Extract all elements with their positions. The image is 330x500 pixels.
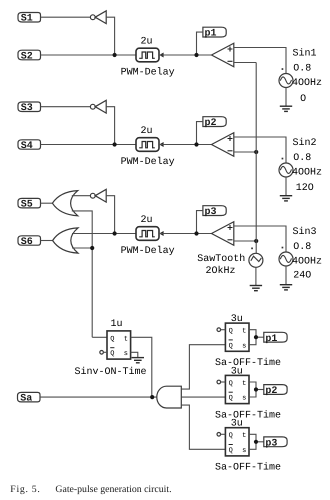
svg-text:SawTooth: SawTooth <box>197 253 245 265</box>
svg-text:Q: Q <box>110 335 114 343</box>
svg-text:O: O <box>300 94 306 105</box>
svg-text:Q: Q <box>229 380 233 388</box>
labels Sin1 0.8 400Hz 0 <box>292 48 322 105</box>
PWM-Delay block channel 1 <box>136 48 164 62</box>
wire OR top input from inverter <box>72 195 91 197</box>
svg-text:t: t <box>242 380 246 388</box>
monostable Sa-OFF-Time 2 <box>225 375 249 403</box>
wire Sinv-ON-Time to ground <box>131 352 138 357</box>
labels Sin3 0.8 400Hz 240 <box>292 226 322 281</box>
inverter (S4 to S3) <box>90 100 106 113</box>
wire inverter input from junction <box>106 107 114 145</box>
tag S6 <box>18 236 41 248</box>
tag Sa <box>18 392 41 404</box>
tag S5 <box>18 198 41 210</box>
junction p2 trigger <box>254 387 258 391</box>
tag p3 (bottom) <box>264 437 287 450</box>
svg-text:Sin1: Sin1 <box>293 48 317 60</box>
svg-text:4OOHz: 4OOHz <box>292 168 322 179</box>
bubble pin (Sa-OFF-Time 1) <box>217 328 225 332</box>
tag S4 <box>18 140 41 152</box>
svg-text:S6: S6 <box>21 237 33 248</box>
AND gate (3-input, pointing left) <box>157 386 182 408</box>
svg-text:p3: p3 <box>265 438 277 449</box>
comparator U3 <box>212 222 234 246</box>
svg-text:Q: Q <box>229 395 233 403</box>
svg-text:Q: Q <box>110 350 114 358</box>
svg-text:s: s <box>242 395 246 403</box>
sawtooth source SawTooth <box>249 248 263 268</box>
labels Sin2 0.8 400Hz 120 <box>292 137 322 194</box>
sine source Sin1 <box>279 68 293 87</box>
wire + input from sine <box>234 137 286 163</box>
wire p3 tap <box>197 211 203 234</box>
svg-text:24O: 24O <box>293 271 311 282</box>
wire S4 line to PWM-Delay <box>41 144 137 146</box>
svg-text:1u: 1u <box>111 319 123 330</box>
junction node p1 <box>194 53 198 57</box>
wire S2 line to PWM-Delay <box>41 54 137 56</box>
monostable Sa-OFF-Time 3 <box>225 428 249 456</box>
svg-text:Sa-OFF-Time: Sa-OFF-Time <box>215 409 281 421</box>
wire p1 tap <box>197 32 203 55</box>
OR gate (S6) <box>53 228 78 253</box>
svg-text:O.8: O.8 <box>293 153 311 164</box>
svg-text:p2: p2 <box>265 386 277 397</box>
comparator U2 <box>212 133 234 157</box>
junction node p2 <box>194 142 198 146</box>
OR gate (S5) <box>52 191 77 216</box>
wire S5 to OR gate <box>41 202 53 204</box>
svg-text:Sa: Sa <box>20 394 32 405</box>
junction p3 trigger <box>254 440 258 444</box>
svg-text:Q: Q <box>229 447 233 455</box>
wire + input from sine <box>234 48 286 74</box>
wire to tag p1 <box>256 336 264 338</box>
wire trigger bracket (Sa-OFF-Time 3) <box>249 434 256 449</box>
svg-text:Sa-OFF-Time: Sa-OFF-Time <box>215 462 281 474</box>
svg-text:Q: Q <box>229 432 233 440</box>
svg-text:s: s <box>242 447 246 455</box>
svg-text:PWM-Delay: PWM-Delay <box>121 245 175 257</box>
svg-text:4OOHz: 4OOHz <box>292 257 322 268</box>
svg-text:Q: Q <box>229 342 233 350</box>
sine source Sin3 <box>279 247 293 266</box>
wire to tag p2 <box>256 389 264 391</box>
wire - input to sawtooth bus <box>234 62 256 64</box>
junction node channel 3 <box>113 231 117 235</box>
svg-text:Sinv-ON-Time: Sinv-ON-Time <box>75 366 147 378</box>
svg-text:2OkHz: 2OkHz <box>206 265 236 277</box>
tag p3 <box>203 206 226 219</box>
svg-text:2u: 2u <box>141 126 153 137</box>
svg-text:Fig. 5.: Fig. 5. <box>10 484 40 495</box>
ground (SawTooth) <box>250 286 262 291</box>
wire S6 to OR gate <box>41 240 53 242</box>
tag p2 <box>203 117 226 130</box>
wire OR bottom input from Sinv-ON-Time output <box>72 211 92 337</box>
svg-text:s: s <box>242 342 246 350</box>
svg-text:PWM-Delay: PWM-Delay <box>121 67 175 79</box>
tag S1 <box>18 13 41 25</box>
svg-text:Sin2: Sin2 <box>293 137 317 149</box>
bubble pin (Sa-OFF-Time 3) <box>217 433 225 437</box>
wire p2 tap <box>197 122 203 145</box>
svg-text:Gate-pulse generation circuit.: Gate-pulse generation circuit. <box>55 484 171 495</box>
svg-text:t: t <box>242 432 246 440</box>
wire to tag p3 <box>256 441 264 443</box>
svg-text:2u: 2u <box>141 215 153 226</box>
wire Sinv-ON-Time to Sa node <box>131 337 152 397</box>
wire Sa line to AND output <box>40 396 157 398</box>
wire S3 to inverter output <box>41 106 91 108</box>
svg-text:s: s <box>124 350 128 358</box>
svg-text:t: t <box>124 335 128 343</box>
wire AND input 2 from Sa-OFF-Time 2 <box>181 396 225 398</box>
bubble pin (Sinv-ON-Time Qbar) <box>100 351 107 355</box>
PWM-Delay block channel 2 <box>136 138 164 152</box>
ground (Sin3) <box>280 285 292 290</box>
svg-text:p1: p1 <box>205 29 217 40</box>
svg-text:t: t <box>242 328 246 336</box>
comparator U1 <box>212 43 234 67</box>
inverter (S2 to S1) <box>90 11 106 24</box>
junction Sinv feedback <box>90 246 94 250</box>
tag S3 <box>18 102 41 114</box>
junction Sa node <box>150 395 154 399</box>
sine source Sin2 <box>279 158 293 177</box>
junction node S2 <box>113 53 117 57</box>
junction sawtooth bus <box>254 150 258 154</box>
wire channel-3 main line to PWM-Delay <box>72 233 136 235</box>
wire into Sinv-ON-Time input <box>92 336 107 338</box>
caption Fig. 5 <box>10 484 171 495</box>
wire sawtooth bus <box>255 63 257 254</box>
labels SawTooth 20kHz <box>197 253 245 277</box>
ground (Sin2) <box>280 196 292 201</box>
svg-text:12O: 12O <box>296 183 314 194</box>
svg-text:Q: Q <box>229 328 233 336</box>
wire <box>285 177 287 196</box>
wire AND input 3 from Sa-OFF-Time 3 <box>181 405 225 449</box>
wire AND input 1 from Sa-OFF-Time 1 <box>181 345 225 389</box>
inverter (channel 3) <box>90 189 106 202</box>
svg-text:4OOHz: 4OOHz <box>292 78 322 89</box>
svg-text:Sa-OFF-Time: Sa-OFF-Time <box>215 357 281 369</box>
svg-text:p2: p2 <box>205 118 217 129</box>
tag p1 <box>203 27 226 40</box>
svg-text:S4: S4 <box>21 141 33 152</box>
tag p2 (bottom) <box>264 385 287 398</box>
svg-text:S3: S3 <box>21 103 33 114</box>
monostable Sinv-ON-Time <box>107 331 131 359</box>
tag S2 <box>18 50 41 62</box>
junction node p3 <box>194 231 198 235</box>
junction node S4 <box>113 142 117 146</box>
monostable Sa-OFF-Time 1 <box>225 323 249 351</box>
svg-text:PWM-Delay: PWM-Delay <box>121 156 175 168</box>
tag p1 (bottom) <box>264 332 287 345</box>
svg-text:O.8: O.8 <box>293 64 311 75</box>
wire - input to sawtooth bus <box>234 151 256 153</box>
wire <box>285 88 287 107</box>
junction p1 trigger <box>254 335 258 339</box>
wire - input to sawtooth bus <box>234 240 256 242</box>
wire inverter input from junction <box>106 17 114 55</box>
svg-text:2u: 2u <box>141 36 153 47</box>
wire comparator output to PWM-Delay <box>159 54 212 56</box>
wire comparator output to PWM-Delay <box>159 233 212 235</box>
wire inverter input from junction <box>106 196 114 234</box>
ground (Sinv-ON-Time) <box>132 358 144 363</box>
wire trigger bracket (Sa-OFF-Time 2) <box>249 382 256 397</box>
svg-text:Sin3: Sin3 <box>293 226 317 238</box>
wire comparator output to PWM-Delay <box>159 144 212 146</box>
svg-text:S5: S5 <box>21 200 33 211</box>
wire trigger bracket (Sa-OFF-Time 1) <box>249 330 256 345</box>
bubble pin (Sa-OFF-Time 2) <box>217 380 225 384</box>
wire sawtooth to ground <box>255 267 257 285</box>
svg-text:p1: p1 <box>265 334 277 345</box>
svg-text:O.8: O.8 <box>293 242 311 253</box>
junction sawtooth bus ch3 <box>254 239 258 243</box>
svg-text:S2: S2 <box>21 51 33 62</box>
wire OR (S6) bottom input <box>72 247 92 249</box>
ground (Sin1) <box>280 106 292 111</box>
svg-text:p3: p3 <box>205 207 217 218</box>
wire S1 to inverter output <box>41 16 91 18</box>
wire + input from Sin3 <box>234 226 286 252</box>
svg-text:S1: S1 <box>21 14 33 25</box>
wire <box>285 266 287 285</box>
PWM-Delay block channel 3 <box>136 227 164 241</box>
